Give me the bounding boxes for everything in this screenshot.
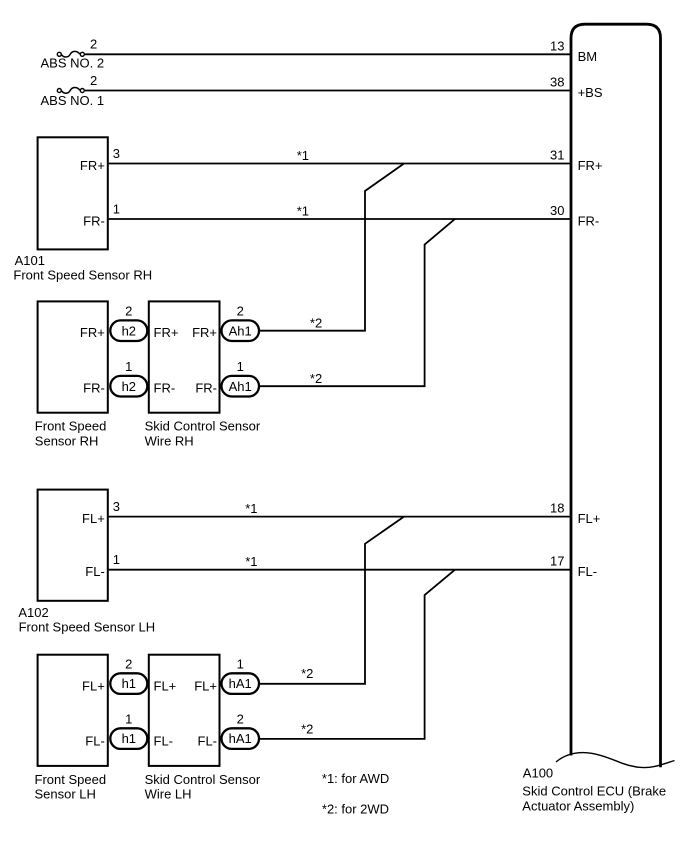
svg-text:1: 1	[113, 552, 120, 567]
Front Speed Sensor RH name label line2	[35, 434, 99, 449]
Skid Control Sensor Wire LH left pin label FL+	[154, 679, 177, 694]
A101 designator label	[15, 253, 45, 268]
ECU bottom break wavy line	[556, 753, 675, 768]
Skid Control Sensor Wire RH right pin label FR+	[192, 325, 217, 340]
Skid Control Sensor Wire RH right pin label FR-	[195, 381, 217, 396]
svg-text:A100: A100	[523, 766, 553, 781]
svg-text:*1: for AWD: *1: for AWD	[322, 771, 389, 786]
svg-text:31: 31	[550, 148, 564, 163]
svg-text:FL-: FL-	[578, 564, 598, 579]
svg-text:Front Speed: Front Speed	[35, 419, 107, 434]
wire hA1 FL+ (*2) feeder to FL+ line	[260, 517, 405, 684]
svg-text:FL-: FL-	[154, 734, 174, 749]
connector oval Ah1 (FR-)	[222, 376, 260, 397]
svg-text:*1: *1	[245, 501, 257, 516]
Skid Control Sensor Wire LH right pin label FL-	[198, 734, 218, 749]
svg-text:*1: *1	[297, 148, 309, 163]
fuse ABS NO. 1	[57, 88, 84, 94]
svg-text:FR+: FR+	[80, 325, 105, 340]
note label *1: for AWD	[322, 771, 389, 786]
ECU pin number 13	[550, 38, 564, 53]
Skid Control Sensor Wire LH right pin label FL+	[194, 679, 217, 694]
svg-text:hA1: hA1	[229, 676, 252, 691]
wire hA1 FL- (*2) feeder to FL- line	[260, 570, 456, 739]
pin number 1 above h1 FL-	[125, 711, 132, 726]
ECU pin number 18	[550, 501, 564, 516]
Front Speed Sensor LH pin label FL+	[82, 679, 105, 694]
svg-text:FL+: FL+	[154, 679, 177, 694]
svg-text:Front Speed Sensor LH: Front Speed Sensor LH	[19, 620, 156, 635]
Front Speed Sensor LH pin label FL-	[85, 734, 105, 749]
ECU pin number 38	[550, 75, 564, 90]
fuse ABS NO. 1 pin 2	[90, 73, 97, 88]
ECU pin label FL-	[578, 564, 598, 579]
ECU A100 box outline	[571, 24, 661, 767]
connector oval h1 (FL+)	[110, 673, 147, 694]
fuse ABS NO. 2 pin 2	[90, 37, 97, 52]
svg-text:2: 2	[90, 37, 97, 52]
svg-text:FR+: FR+	[80, 158, 105, 173]
svg-text:Sensor RH: Sensor RH	[35, 434, 99, 449]
svg-text:FR+: FR+	[192, 325, 217, 340]
ECU pin label FL+	[578, 511, 601, 526]
Skid Control Sensor Wire LH name label line2	[145, 786, 192, 801]
svg-text:30: 30	[550, 203, 564, 218]
svg-text:FL-: FL-	[198, 734, 218, 749]
connector oval h2 (FR-)	[110, 376, 147, 397]
A101 pin label FR-	[83, 214, 105, 229]
svg-text:A101: A101	[15, 253, 45, 268]
pin number 2 above h2 FR+	[125, 304, 132, 319]
svg-text:3: 3	[113, 146, 120, 161]
Skid Control Sensor Wire RH name label line2	[145, 434, 194, 449]
box Front Speed Sensor LH (2WD)	[38, 655, 108, 766]
wire Ah1 FR- (*2) feeder to FR- line	[260, 219, 456, 386]
svg-text:FR-: FR-	[578, 214, 600, 229]
A102 pin number 3	[113, 499, 120, 514]
svg-text:FR-: FR-	[195, 381, 217, 396]
wire A102 FL- to ECU pin 17	[109, 569, 572, 571]
svg-text:Skid Control Sensor: Skid Control Sensor	[145, 772, 261, 787]
connector oval h1 (FL-)	[110, 728, 147, 749]
svg-text:2: 2	[125, 304, 132, 319]
Skid Control Sensor Wire LH left pin label FL-	[154, 734, 174, 749]
svg-text:1: 1	[113, 201, 120, 216]
label *1 on FL+ wire	[245, 501, 257, 516]
A101 pin number 3	[113, 146, 120, 161]
svg-text:18: 18	[550, 501, 564, 516]
svg-text:h2: h2	[122, 323, 136, 338]
Front Speed Sensor RH pin label FR-	[83, 381, 105, 396]
label *1 on FL- wire	[245, 554, 257, 569]
pin number 1 above Ah1 FR-	[237, 359, 244, 374]
svg-text:Wire RH: Wire RH	[145, 434, 194, 449]
svg-text:1: 1	[125, 711, 132, 726]
svg-text:Skid Control Sensor: Skid Control Sensor	[145, 419, 261, 434]
wire A101 FR+ to ECU pin 31	[109, 163, 572, 165]
A101 pin label FR+	[80, 158, 105, 173]
box Front Speed Sensor RH (2WD)	[38, 301, 108, 412]
wire A101 FR- to ECU pin 30	[109, 218, 572, 220]
label *2 on Ah1 FR+ wire	[310, 316, 322, 331]
svg-text:FL+: FL+	[82, 679, 105, 694]
svg-text:17: 17	[550, 554, 564, 569]
svg-text:FR-: FR-	[83, 381, 105, 396]
svg-text:+BS: +BS	[578, 85, 603, 100]
wire fuse ABS NO.1 to ECU pin 38	[85, 90, 572, 92]
connector oval Ah1 (FR+)	[222, 320, 260, 341]
wire Ah1 FR+ (*2) feeder to FR+ line	[260, 164, 405, 331]
box Skid Control Sensor Wire LH	[149, 655, 220, 766]
svg-text:2: 2	[90, 73, 97, 88]
wire A102 FL+ to ECU pin 18	[109, 516, 572, 518]
svg-text:Sensor LH: Sensor LH	[35, 786, 96, 801]
svg-text:2: 2	[237, 711, 244, 726]
svg-text:FL+: FL+	[194, 679, 217, 694]
A101 name label	[13, 268, 152, 283]
svg-text:2: 2	[125, 657, 132, 672]
svg-text:*1: *1	[245, 554, 257, 569]
A102 pin label FL-	[85, 564, 105, 579]
svg-text:*2: *2	[301, 666, 313, 681]
label *1 on FR- wire	[297, 203, 309, 218]
svg-text:FL+: FL+	[578, 511, 601, 526]
A102 designator label	[18, 605, 48, 620]
ECU pin label FR+	[578, 158, 603, 173]
svg-text:*1: *1	[297, 203, 309, 218]
svg-text:Skid Control ECU (Brake: Skid Control ECU (Brake	[522, 783, 666, 798]
Skid Control Sensor Wire RH left pin label FR+	[154, 325, 179, 340]
svg-text:Ah1: Ah1	[229, 379, 252, 394]
A102 pin label FL+	[82, 511, 105, 526]
Skid Control Sensor Wire RH left pin label FR-	[154, 381, 176, 396]
Front Speed Sensor LH name label line1	[35, 772, 107, 787]
svg-text:FR-: FR-	[83, 214, 105, 229]
pin number 1 above h2 FR-	[125, 359, 132, 374]
box Skid Control Sensor Wire RH	[149, 301, 220, 412]
svg-text:A102: A102	[18, 605, 48, 620]
svg-text:1: 1	[237, 359, 244, 374]
ECU pin label +BS	[578, 85, 603, 100]
svg-text:FL+: FL+	[82, 511, 105, 526]
A102 pin number 1	[113, 552, 120, 567]
svg-text:h1: h1	[122, 731, 136, 746]
ECU name label line1	[522, 783, 666, 798]
ECU designator label A100	[523, 766, 553, 781]
ECU pin label BM	[578, 49, 598, 64]
svg-text:hA1: hA1	[229, 731, 252, 746]
svg-text:FR+: FR+	[578, 158, 603, 173]
svg-text:BM: BM	[578, 49, 598, 64]
label *2 on hA1 FL- wire	[301, 722, 313, 737]
svg-text:Ah1: Ah1	[229, 323, 252, 338]
svg-text:Actuator Assembly): Actuator Assembly)	[522, 798, 634, 813]
pin number 2 above h1 FL+	[125, 657, 132, 672]
svg-text:Front Speed: Front Speed	[35, 772, 107, 787]
Skid Control Sensor Wire LH name label line1	[145, 772, 261, 787]
ECU pin number 31	[550, 148, 564, 163]
svg-text:Front Speed Sensor RH: Front Speed Sensor RH	[13, 268, 152, 283]
fuse ABS NO. 1 label	[41, 93, 105, 108]
pin number 2 above Ah1 FR+	[237, 304, 244, 319]
label *2 on Ah1 FR- wire	[310, 371, 322, 386]
Front Speed Sensor LH name label line2	[35, 786, 96, 801]
label *1 on FR+ wire	[297, 148, 309, 163]
Front Speed Sensor RH name label line1	[35, 419, 107, 434]
label *2 on hA1 FL+ wire	[301, 666, 313, 681]
ECU pin label FR-	[578, 214, 600, 229]
connector A102 Front Speed Sensor LH box	[38, 490, 108, 601]
svg-text:ABS NO. 2: ABS NO. 2	[41, 56, 105, 71]
svg-text:FR-: FR-	[154, 381, 176, 396]
Skid Control Sensor Wire RH name label line1	[145, 419, 261, 434]
connector oval hA1 (FL+)	[222, 673, 260, 694]
svg-text:*2: *2	[310, 371, 322, 386]
svg-text:2: 2	[237, 304, 244, 319]
svg-text:h1: h1	[122, 676, 136, 691]
connector oval hA1 (FL-)	[222, 728, 260, 749]
fuse ABS NO. 2	[57, 51, 84, 57]
svg-text:FL-: FL-	[85, 564, 105, 579]
ECU pin number 17	[550, 554, 564, 569]
connector oval h2 (FR+)	[110, 320, 147, 341]
svg-text:1: 1	[125, 359, 132, 374]
svg-text:*2: *2	[301, 722, 313, 737]
pin number 2 above hA1 FL-	[237, 711, 244, 726]
svg-text:h2: h2	[122, 379, 136, 394]
pin number 1 above hA1 FL+	[237, 657, 244, 672]
fuse ABS NO. 2 label	[41, 56, 105, 71]
A101 pin number 1	[113, 201, 120, 216]
Front Speed Sensor RH pin label FR+	[80, 325, 105, 340]
note label *2: for 2WD	[322, 801, 389, 816]
svg-text:ABS NO. 1: ABS NO. 1	[41, 93, 105, 108]
svg-text:Wire LH: Wire LH	[145, 786, 192, 801]
svg-text:13: 13	[550, 38, 564, 53]
svg-text:FL-: FL-	[85, 734, 105, 749]
ECU pin number 30	[550, 203, 564, 218]
svg-text:38: 38	[550, 75, 564, 90]
svg-text:FR+: FR+	[154, 325, 179, 340]
svg-text:1: 1	[237, 657, 244, 672]
svg-text:*2: *2	[310, 316, 322, 331]
svg-text:*2: for 2WD: *2: for 2WD	[322, 801, 389, 816]
wire fuse ABS NO.2 to ECU pin 13	[85, 53, 572, 55]
A102 name label	[19, 620, 156, 635]
connector A101 Front Speed Sensor RH box	[38, 137, 108, 249]
svg-text:3: 3	[113, 499, 120, 514]
ECU name label line2	[522, 798, 634, 813]
